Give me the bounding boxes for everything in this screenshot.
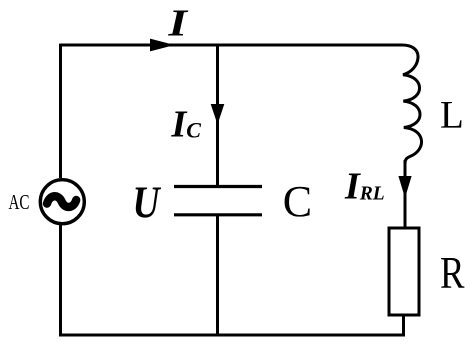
- current arrow I (on top wire, pointing right): [150, 39, 175, 52]
- wire: bottom horizontal: [59, 334, 405, 337]
- svg-text:IC: IC: [171, 104, 202, 146]
- current arrow IC (on middle branch, pointing down): [211, 104, 225, 125]
- AC source V1: circle: [40, 180, 84, 224]
- wire: right branch from inductor bottom to resistor top: [404, 160, 407, 228]
- wire: middle branch lower (capacitor to bottom wire): [216, 215, 219, 335]
- capacitor C: bottom plate: [174, 213, 262, 216]
- AC source V1: sine symbol: [47, 196, 76, 207]
- current arrow IRL (on right branch, pointing down): [398, 176, 411, 198]
- wire: left vertical upper (source top to top wire): [59, 44, 62, 178]
- svg-text:R: R: [440, 247, 465, 298]
- inductor L: coil from top wire corner down to right branch: [396, 45, 422, 164]
- wire: middle branch upper (top wire to capacitor): [216, 45, 219, 186]
- svg-text:AC: AC: [9, 190, 30, 214]
- wire: left vertical lower (source bottom to bottom wire): [59, 225, 62, 336]
- svg-text:IRL: IRL: [344, 166, 385, 208]
- svg-text:C: C: [283, 177, 312, 226]
- svg-text:U: U: [133, 177, 162, 228]
- wire: top horizontal from source to inductor: [61, 44, 399, 47]
- wire: right branch from resistor bottom to bottom wire: [402, 315, 405, 336]
- svg-text:I: I: [167, 3, 188, 45]
- capacitor C: top plate: [174, 185, 262, 188]
- svg-text:L: L: [440, 94, 464, 137]
- resistor R: body rectangle: [389, 228, 419, 315]
